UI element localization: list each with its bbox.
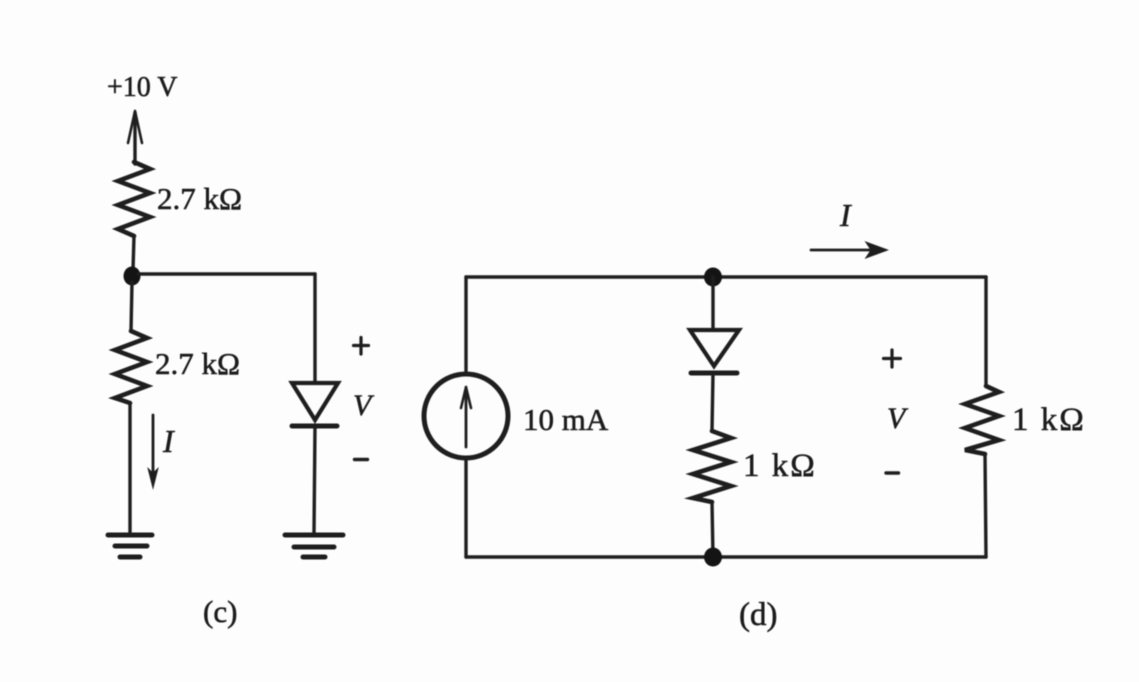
svg-text:+10 V: +10 V [107,72,178,103]
wire bottom rail of circuit d [466,555,986,558]
svg-text:(d): (d) [739,597,777,633]
resistor R4 1k zigzag [965,386,999,454]
diode D1 cathode bar [292,424,337,429]
wire right rail bottom [985,454,986,557]
svg-text:(c): (c) [203,594,237,629]
wire top rail of circuit d [466,275,986,278]
current I arrow (right circuit) [811,249,878,252]
current source arrow [465,391,468,447]
plus sign (c) [354,338,369,355]
wire supply arrow shaft [133,113,136,164]
wire R2 bottom to ground [128,403,131,533]
svg-text:2.7 kΩ: 2.7 kΩ [155,346,240,381]
svg-text:2.7 kΩ: 2.7 kΩ [157,181,242,216]
resistor R2 2.7k zigzag [115,331,147,403]
diode D2 cathode bar [691,371,737,376]
wire node A to diode branch (horizontal) [138,272,315,275]
resistor R1 2.7k zigzag [118,162,150,236]
svg-text:V: V [353,389,375,422]
svg-text:I: I [839,197,852,233]
node A junction dot [124,267,141,286]
supply arrowhead [128,111,142,143]
wire R3 to bottom node [712,502,713,557]
svg-text:1 kΩ: 1 kΩ [743,448,817,484]
svg-text:V: V [887,402,909,435]
wire diode branch vertical down to diode [313,274,316,382]
svg-text:1 kΩ: 1 kΩ [1012,402,1086,438]
wire node A down to R2 [131,282,132,331]
wire diode D2 to R3 [712,373,713,431]
current source circle [424,374,508,458]
wire left rail bottom [464,458,467,557]
wire R1 bottom to node A [133,236,134,270]
current I arrow (left circuit) [152,415,155,483]
wire right rail top [984,277,987,386]
wire left rail top (source to top rail) [464,277,467,374]
wire diode D1 to ground [314,426,315,533]
resistor R3 1k zigzag [693,431,731,502]
ground (diode branch) [285,533,343,538]
diode D2 anode triangle [690,330,739,366]
plus sign (d) [884,350,901,367]
ground (left branch) [108,533,152,538]
node C bottom junction dot [704,548,722,567]
diode D1 anode triangle [292,383,338,420]
svg-text:10 mA: 10 mA [523,402,609,437]
svg-text:I: I [162,423,175,459]
minus sign (d) [886,471,899,474]
wire node B to diode D2 [711,277,714,329]
minus sign (c) [355,458,368,461]
node B top junction dot [704,268,722,287]
